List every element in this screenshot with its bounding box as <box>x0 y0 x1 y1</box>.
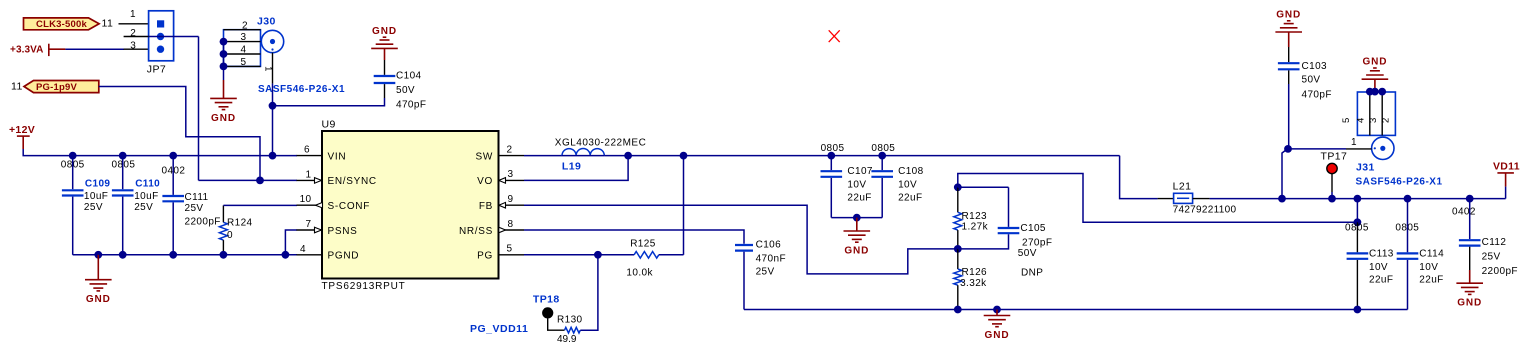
wire C107/C108 bottoms <box>831 217 882 219</box>
svg-text:3: 3 <box>241 32 247 43</box>
wire down to VD11 bus <box>1282 150 1286 199</box>
svg-text:22uF: 22uF <box>847 193 871 204</box>
svg-text:SASF546-P26-X1: SASF546-P26-X1 <box>258 84 345 95</box>
bottom ground bus <box>744 309 1408 311</box>
svg-text:SASF546-P26-X1: SASF546-P26-X1 <box>1356 177 1443 188</box>
svg-text:C111: C111 <box>185 192 209 203</box>
wire TP17 to bus <box>1331 174 1333 192</box>
pin U9.4 PGND <box>297 254 323 256</box>
svg-text:U9: U9 <box>322 118 336 130</box>
junction C112/bus <box>1466 195 1474 203</box>
wire R125 to VOUT riser <box>659 254 684 256</box>
connector J31 <box>1357 92 1395 160</box>
svg-text:DNP: DNP <box>1021 268 1043 279</box>
svg-text:FB: FB <box>479 201 493 212</box>
svg-text:GND: GND <box>1362 57 1387 68</box>
svg-text:R123: R123 <box>962 211 988 222</box>
wire C104 to VIN node <box>273 98 385 106</box>
capacitor C110 <box>122 156 124 190</box>
svg-text:0805: 0805 <box>871 143 895 154</box>
svg-text:25V: 25V <box>134 202 153 213</box>
test point TP18 <box>542 307 553 318</box>
junction C108 top <box>878 152 886 160</box>
junction J30.5 <box>220 63 228 71</box>
svg-text:10: 10 <box>300 194 312 205</box>
svg-text:GND: GND <box>844 246 869 257</box>
svg-text:10V: 10V <box>1369 262 1388 273</box>
svg-text:1.27k: 1.27k <box>962 222 989 233</box>
svg-text:PG-1p9V: PG-1p9V <box>36 82 77 93</box>
wire R130 to PG junction <box>580 255 598 330</box>
svg-text:4: 4 <box>241 45 247 56</box>
svg-text:VO: VO <box>477 176 493 187</box>
junction R125 riser <box>680 152 688 160</box>
junction C109/bus <box>69 152 77 160</box>
junction J30/C104 <box>269 102 277 110</box>
wire JP7 pin2 through body to EN/SYNC <box>149 36 199 38</box>
junction gnd stem bottom bus <box>993 306 1001 314</box>
svg-text:PG_VDD11: PG_VDD11 <box>470 323 528 335</box>
svg-text:10V: 10V <box>1419 262 1438 273</box>
junction at VD11 bus <box>1278 195 1286 203</box>
resistor R123 <box>957 187 959 212</box>
connector J30 <box>224 30 284 67</box>
junction C113/bus <box>1354 195 1362 203</box>
connector JP7 <box>149 11 174 61</box>
wire L19 to VOUT bus <box>604 155 1119 157</box>
svg-text:R130: R130 <box>557 315 583 326</box>
ground under C112 <box>1469 270 1471 283</box>
svg-text:74279221100: 74279221100 <box>1173 204 1237 215</box>
svg-text:PGND: PGND <box>328 251 360 262</box>
resistor R124 <box>222 205 224 222</box>
svg-text:+3.3VA: +3.3VA <box>10 44 44 55</box>
capacitor C112 <box>1469 199 1471 240</box>
wire VO to SW node <box>524 156 628 181</box>
svg-text:6: 6 <box>304 145 310 156</box>
svg-text:470nF: 470nF <box>756 253 786 264</box>
pin U9.7 PSNS <box>297 229 323 231</box>
pin JP7.3 <box>124 48 149 50</box>
ground under C107/C108 <box>856 218 858 231</box>
svg-text:470pF: 470pF <box>1302 90 1332 101</box>
wires J30 pins 3,4,5 to GND <box>223 42 225 80</box>
pin U9.1 EN/SYNC <box>297 179 323 181</box>
junction PSNS loop <box>282 251 290 259</box>
pin U9.3 VO <box>499 179 525 181</box>
svg-text:4: 4 <box>1356 117 1367 123</box>
svg-text:10.0k: 10.0k <box>626 268 653 279</box>
junction J31 pin 4 <box>1366 88 1374 96</box>
wire CLK3-500k to JP7 pin1 <box>119 23 149 25</box>
svg-text:R125: R125 <box>630 238 656 249</box>
wire divider top to C105 <box>958 186 1009 188</box>
svg-text:GND: GND <box>1457 298 1482 309</box>
svg-text:C107: C107 <box>847 166 873 177</box>
svg-text:C112: C112 <box>1482 237 1507 248</box>
svg-text:C106: C106 <box>756 240 782 251</box>
svg-text:L19: L19 <box>562 161 581 173</box>
junction FB sense at C113 <box>1354 218 1362 226</box>
svg-text:10V: 10V <box>898 180 917 191</box>
svg-text:SW: SW <box>475 151 493 162</box>
svg-text:NR/SS: NR/SS <box>459 226 493 237</box>
svg-text:C113: C113 <box>1369 249 1394 260</box>
svg-text:22uF: 22uF <box>1369 274 1393 285</box>
svg-text:5: 5 <box>507 244 513 255</box>
svg-text:2200pF: 2200pF <box>1482 266 1518 277</box>
svg-text:3: 3 <box>130 41 136 52</box>
svg-text:2: 2 <box>1380 117 1391 123</box>
power symbol VD11 <box>1493 160 1520 186</box>
capacitor C106 <box>735 244 753 246</box>
bottom PGND bus <box>73 254 297 256</box>
svg-text:50V: 50V <box>1018 248 1037 259</box>
svg-text:L21: L21 <box>1173 181 1192 193</box>
wire PG row <box>524 254 634 256</box>
wire PSNS loop <box>285 230 297 255</box>
ground above C103 <box>1275 31 1302 33</box>
wire VOUT down to R125 <box>683 156 685 255</box>
ground bottom middle <box>996 310 998 316</box>
svg-text:1: 1 <box>130 9 136 20</box>
pin U9.10 S-CONF <box>297 204 323 206</box>
pin U9.9 FB <box>499 204 525 206</box>
resistor R130 <box>565 327 581 333</box>
svg-text:PG: PG <box>477 251 493 262</box>
svg-text:25V: 25V <box>756 267 775 278</box>
capacitor C109 <box>72 156 74 190</box>
junction VO riser <box>624 152 632 160</box>
svg-text:5: 5 <box>1341 117 1352 123</box>
junction C103/J31 pin1 <box>1284 145 1292 153</box>
capacitor C108 <box>881 156 883 171</box>
svg-text:49.9: 49.9 <box>557 334 577 345</box>
capacitor C103 <box>1288 47 1290 62</box>
svg-text:11: 11 <box>102 18 114 30</box>
svg-text:25V: 25V <box>84 202 103 213</box>
wire R124 to S-CONF <box>223 204 297 206</box>
junction PG/TP18 <box>594 251 602 259</box>
svg-text:TP18: TP18 <box>533 294 560 306</box>
svg-text:270pF: 270pF <box>1022 238 1052 249</box>
svg-text:3.32k: 3.32k <box>960 278 987 289</box>
svg-text:10uF: 10uF <box>134 191 158 202</box>
svg-text:R124: R124 <box>227 217 253 228</box>
svg-text:5: 5 <box>241 57 247 68</box>
wire J31 pin1 to C103 node <box>1288 148 1346 150</box>
svg-text:10uF: 10uF <box>84 191 108 202</box>
junction C107/C108 gnd <box>853 214 861 222</box>
junction R124 bottom <box>220 251 228 259</box>
svg-text:C104: C104 <box>396 70 422 81</box>
junction C107 top <box>827 152 835 160</box>
svg-text:PSNS: PSNS <box>328 226 358 237</box>
wire EN/SYNC junction to pin <box>260 179 297 181</box>
wire TP18 to R130 <box>548 319 565 331</box>
resistor R125 <box>634 252 659 259</box>
power symbol +3.3VA <box>10 44 65 56</box>
svg-text:J30: J30 <box>257 16 276 28</box>
svg-text:C109: C109 <box>85 178 111 189</box>
svg-text:1: 1 <box>1351 137 1357 148</box>
svg-text:R126: R126 <box>962 267 988 278</box>
resistor divider top junction <box>954 183 962 191</box>
svg-text:TPS62913RPUT: TPS62913RPUT <box>322 281 406 292</box>
ground under J30 <box>223 80 225 98</box>
wire VD11 to bus <box>1505 187 1507 199</box>
svg-text:1: 1 <box>306 169 312 180</box>
wire J30 pin1 down to VIN bus <box>272 84 274 156</box>
ground above C104 <box>371 47 398 49</box>
svg-text:JP7: JP7 <box>147 64 166 76</box>
svg-text:J31: J31 <box>1356 162 1375 174</box>
capacitor C113 <box>1356 199 1358 223</box>
svg-text:XGL4030-222MEC: XGL4030-222MEC <box>555 138 647 149</box>
svg-text:EN/SYNC: EN/SYNC <box>328 176 377 187</box>
capacitor C114 <box>1407 199 1409 253</box>
svg-text:GND: GND <box>211 113 236 124</box>
junction C110/bus <box>119 152 127 160</box>
svg-text:C103: C103 <box>1302 61 1328 72</box>
svg-text:7: 7 <box>306 219 312 230</box>
svg-text:0: 0 <box>227 230 233 241</box>
wire SW to L19 <box>524 155 562 157</box>
svg-text:2: 2 <box>507 144 513 155</box>
svg-text:CLK3-500k: CLK3-500k <box>36 19 87 30</box>
pin U9.2 SW <box>499 155 525 157</box>
svg-text:C108: C108 <box>898 166 924 177</box>
wire +12V bus to VIN <box>23 149 297 156</box>
svg-text:22uF: 22uF <box>898 193 922 204</box>
junction J30.4 <box>220 50 228 58</box>
svg-text:50V: 50V <box>396 85 415 96</box>
junction C114/bus <box>1404 195 1412 203</box>
wire +3.3VA to JP7 pin3 <box>65 48 124 50</box>
junction C111/bus <box>169 152 177 160</box>
svg-text:2: 2 <box>130 28 136 39</box>
svg-text:470pF: 470pF <box>396 100 426 111</box>
svg-text:0402: 0402 <box>1452 207 1476 218</box>
svg-text:3: 3 <box>1368 117 1379 123</box>
svg-text:3: 3 <box>508 169 514 180</box>
test point TP17 <box>1327 163 1337 173</box>
svg-text:C114: C114 <box>1419 249 1444 260</box>
wire PG-1p9V to EN/SYNC junction <box>99 87 260 181</box>
red X no-connect marker <box>829 30 840 42</box>
svg-text:GND: GND <box>372 26 397 37</box>
junction J30.3 <box>220 38 228 46</box>
ground above J31 <box>1362 78 1389 80</box>
pin U9.8 NR/SS <box>499 229 525 231</box>
resistor R126 <box>957 249 959 269</box>
pin J31.1 <box>1346 148 1372 150</box>
svg-text:22uF: 22uF <box>1419 274 1443 285</box>
capacitor C111 <box>172 156 174 195</box>
power symbol +12V <box>9 124 35 149</box>
wire FB sense from divider to output <box>958 174 1358 223</box>
junction J31 pin 3 <box>1378 88 1386 96</box>
svg-text:25V: 25V <box>185 203 204 214</box>
svg-text:0805: 0805 <box>821 143 845 154</box>
svg-text:S-CONF: S-CONF <box>328 201 371 212</box>
junction C113 bottom <box>1354 306 1362 314</box>
svg-text:2200pF: 2200pF <box>185 216 221 227</box>
pin U9.6 VIN <box>297 155 323 157</box>
junction J31 gnd stem <box>1371 88 1379 96</box>
junction C111 bottom <box>169 251 177 259</box>
pin U9.5 PG <box>499 254 525 256</box>
capacitor C105 <box>1008 187 1010 227</box>
svg-text:11: 11 <box>11 81 23 93</box>
junction FB mid node <box>954 245 962 253</box>
svg-text:GND: GND <box>985 330 1010 341</box>
wire NR/SS to C106 <box>524 230 744 244</box>
ground left bottom <box>97 255 99 280</box>
junction C110 bottom <box>119 251 127 259</box>
inductor L21 <box>1158 198 1174 200</box>
svg-text:VD11: VD11 <box>1493 160 1520 172</box>
junction GND stem <box>94 251 102 259</box>
svg-text:GND: GND <box>1276 10 1301 21</box>
svg-text:TP17: TP17 <box>1321 150 1348 162</box>
junction R126 bottom <box>954 306 962 314</box>
svg-text:C110: C110 <box>135 178 160 189</box>
capacitor C107 <box>830 156 832 171</box>
svg-text:C105: C105 <box>1020 223 1046 234</box>
wire FB net <box>524 205 958 274</box>
wire L21 to VD11 bus <box>1210 198 1506 200</box>
svg-text:10V: 10V <box>847 180 866 191</box>
wire VOUT bus to L21 <box>1120 156 1158 199</box>
junction EN/SYNC node <box>256 177 264 185</box>
svg-text:4: 4 <box>300 244 306 255</box>
IC U9 TPS62913RPUT <box>322 131 499 279</box>
svg-text:8: 8 <box>508 219 514 230</box>
svg-text:9: 9 <box>508 194 514 205</box>
junction J30/VIN bus <box>269 152 277 160</box>
svg-text:50V: 50V <box>1302 74 1321 85</box>
power flag CLK3-500k <box>24 18 100 30</box>
pin J30.1 <box>272 53 274 84</box>
svg-text:25V: 25V <box>1482 252 1501 263</box>
svg-text:GND: GND <box>86 294 111 305</box>
junction TP17/bus <box>1328 195 1336 203</box>
svg-text:VIN: VIN <box>328 151 347 162</box>
svg-text:+12V: +12V <box>9 124 35 136</box>
inductor L19 <box>562 149 604 156</box>
pin JP7.2 stub <box>124 36 149 38</box>
capacitor C104 <box>384 60 386 75</box>
svg-text:2: 2 <box>242 20 248 31</box>
